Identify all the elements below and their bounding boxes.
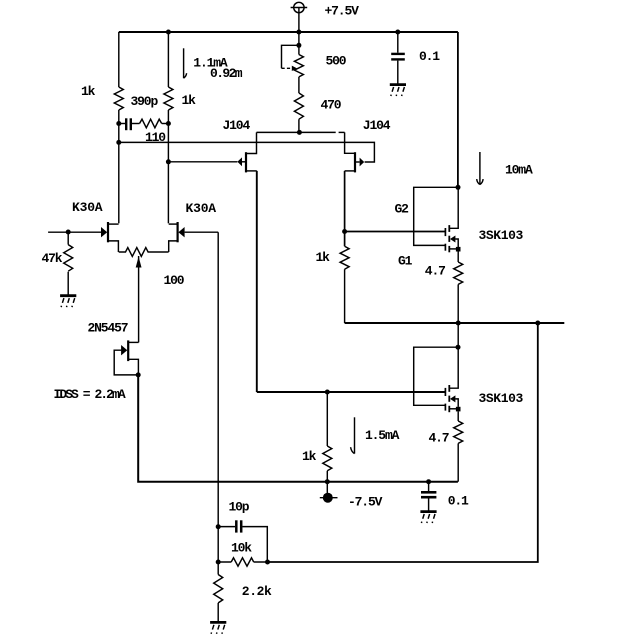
transistor K30A left	[48, 222, 119, 252]
wire left J104 gate line	[168, 161, 237, 163]
svg-text:100: 100	[164, 273, 185, 288]
wire	[344, 269, 346, 323]
svg-text:1k: 1k	[302, 449, 317, 464]
svg-text:470: 470	[321, 98, 342, 113]
wire	[298, 119, 300, 132]
wire	[118, 110, 120, 223]
svg-text:4.7: 4.7	[429, 431, 449, 446]
svg-text:10p: 10p	[229, 500, 250, 515]
current arrow 1.1mA	[184, 48, 187, 78]
resistor 4.7 (upper)	[454, 262, 463, 284]
svg-text:1k: 1k	[316, 250, 331, 265]
svg-text:K30A: K30A	[72, 200, 103, 215]
supply terminal -7.5V	[320, 482, 338, 503]
wire source to 4.7 (upper)	[457, 252, 459, 263]
svg-text:4.7: 4.7	[425, 264, 445, 279]
resistor 47k with input	[64, 232, 73, 295]
wire G1 line (upper 3SK103)	[345, 231, 446, 233]
resistor 470	[294, 93, 303, 119]
wire	[167, 110, 169, 223]
svg-text:+7.5V: +7.5V	[325, 4, 360, 19]
svg-text:2.2k: 2.2k	[242, 584, 272, 599]
wire top rail	[119, 31, 458, 33]
resistor 1k (left)	[114, 87, 123, 110]
capacitor 390p	[119, 118, 140, 130]
wire feedback vertical	[217, 232, 219, 562]
potentiometer 500	[282, 32, 304, 93]
svg-text:500: 500	[326, 54, 347, 69]
svg-text:0.1: 0.1	[448, 494, 469, 509]
svg-text:J104: J104	[363, 118, 391, 133]
wire right branch vertical	[167, 32, 169, 87]
wire right J104 drain down to 1k	[344, 171, 346, 246]
resistor 110	[140, 119, 162, 128]
svg-text:110: 110	[145, 130, 166, 145]
wire feedback from output	[267, 323, 538, 562]
wire left J104 drain down	[256, 171, 258, 392]
svg-text:3SK103: 3SK103	[479, 228, 524, 243]
capacitor 0.1 (top)	[391, 32, 405, 84]
transistor 3SK103 lower	[445, 347, 460, 412]
resistor 1k (lower)	[323, 392, 332, 482]
resistor 10k	[218, 558, 267, 566]
svg-text:2N5457: 2N5457	[88, 321, 128, 336]
resistor 1k (second)	[164, 87, 173, 110]
svg-text:J104: J104	[223, 118, 251, 133]
transistor 2N5457	[114, 340, 138, 375]
svg-text:0.92m: 0.92m	[210, 66, 243, 81]
svg-text:390p: 390p	[131, 94, 159, 109]
svg-text:0.1: 0.1	[419, 49, 440, 64]
current arrow 1.5mA	[351, 417, 355, 453]
svg-text:G2: G2	[395, 202, 410, 217]
supply terminal +7.5V	[291, 2, 308, 32]
ground (top 0.1)	[390, 85, 406, 96]
wire G1 line (lower 3SK103)	[257, 391, 446, 393]
transistor 3SK103 upper	[445, 187, 460, 252]
svg-text:10k: 10k	[231, 541, 252, 556]
svg-text:IDSS = 2.2mA: IDSS = 2.2mA	[54, 387, 126, 402]
transistor J104 left	[237, 132, 256, 172]
current arrow 10mA	[477, 152, 483, 185]
svg-text:-7.5V: -7.5V	[348, 495, 383, 510]
wire	[162, 123, 169, 125]
wire left branch vertical	[118, 32, 120, 87]
svg-text:1.5mA: 1.5mA	[365, 428, 400, 443]
wire G2 box (lower 3SK103)	[414, 347, 458, 405]
ground (47k)	[60, 296, 76, 307]
resistor 2.2k	[214, 562, 223, 622]
wire source to 4.7 (lower)	[457, 411, 459, 421]
resistor 4.7 (lower)	[454, 421, 463, 443]
wire J104 sources top link	[257, 131, 345, 133]
ground (bottom 0.1)	[420, 512, 436, 523]
svg-text:G1: G1	[398, 254, 413, 269]
capacitor 0.1 (bottom)	[421, 482, 436, 511]
wire output line	[345, 322, 565, 324]
wire right rail down	[457, 32, 459, 187]
ground (2.2k)	[210, 622, 226, 633]
wire lower drain link	[457, 323, 459, 347]
svg-text:1k: 1k	[182, 93, 197, 108]
svg-text:10mA: 10mA	[505, 163, 533, 178]
wire G2 box (upper 3SK103)	[414, 187, 458, 245]
svg-text:3SK103: 3SK103	[479, 391, 524, 406]
wire negative rail	[138, 375, 458, 482]
transistor J104 right	[345, 132, 365, 172]
svg-text:47k: 47k	[42, 251, 63, 266]
wire	[457, 284, 459, 323]
transistor K30A right	[169, 222, 218, 252]
svg-text:1k: 1k	[81, 84, 96, 99]
potentiometer 100	[119, 248, 169, 343]
wire cascode bias line	[119, 142, 375, 162]
capacitor 10p	[218, 520, 267, 562]
resistor 1k (middle)	[340, 246, 349, 269]
svg-text:K30A: K30A	[186, 201, 217, 216]
wire	[457, 443, 459, 481]
